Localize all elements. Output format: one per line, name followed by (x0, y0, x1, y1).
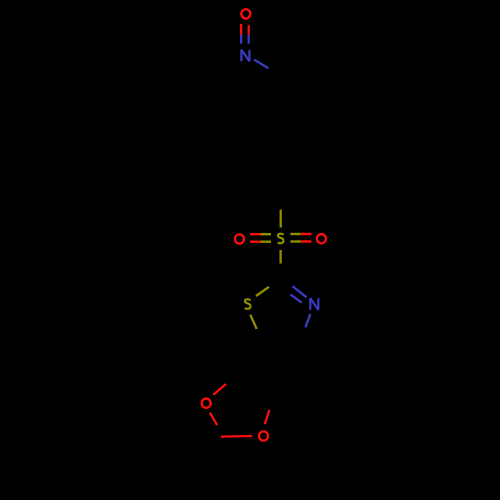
atom O (sulfonyl right) (317, 234, 326, 243)
bond S=O right (double, olive/red) (290, 234, 311, 242)
bond O3-C4 dioxolane (red half, up-right) (265, 410, 270, 424)
bond N-C4 thiazole (blue half) (306, 314, 311, 327)
bond O1-C5 dioxolane (red half, up-right) (213, 384, 226, 395)
bond S=O left (double, red/olive) (250, 234, 271, 242)
bond N=O (nitroso double bond, red O-half / blue N-half) (241, 24, 249, 44)
atom O1 (dioxolane left) (202, 399, 211, 408)
bond O1-C2 dioxolane (red half, down-right) (210, 413, 217, 426)
bond C2-O3 dioxolane (red, horizontal) (221, 435, 252, 438)
atom S (sulfonyl) (278, 234, 284, 244)
bond N-C1 benzene (blue half) (254, 60, 269, 69)
bond C4benzene-S sulfonyl (olive half) (280, 210, 282, 228)
atom O3 (dioxolane bottom right) (259, 431, 268, 440)
atom O (sulfonyl left) (235, 234, 244, 243)
atom O (nitroso) (241, 9, 250, 18)
atom N (nitroso) (241, 50, 249, 62)
atom N (thiazole) (310, 298, 318, 310)
bond S-C5 thiazole (olive half) (250, 315, 256, 329)
bond S-C2 thiazole (olive half) (256, 287, 269, 296)
atom S (thiazole) (245, 299, 251, 309)
bond S sulfonyl-C2 thiazole (olive half) (279, 250, 281, 264)
bond C2=N thiazole (double, blue halves) (291, 286, 307, 303)
